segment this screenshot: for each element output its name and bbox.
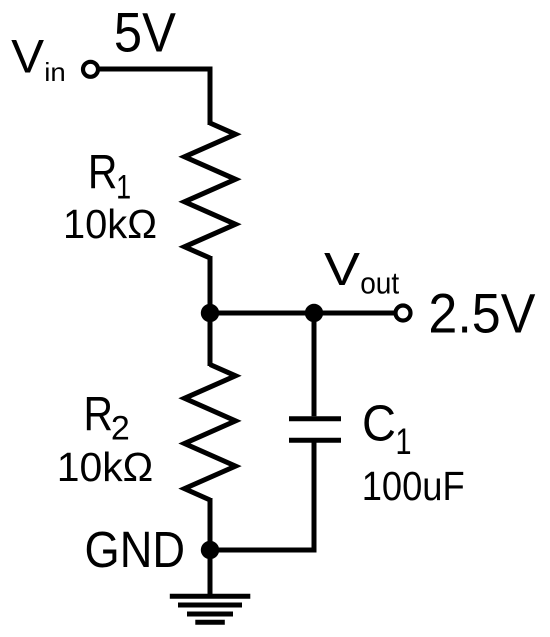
- capacitor C1 top plate: [289, 416, 341, 421]
- terminal Vin (open circle): [83, 62, 98, 77]
- svg-text:C: C: [362, 394, 396, 451]
- svg-text:in: in: [44, 57, 66, 87]
- svg-text:out: out: [360, 265, 399, 300]
- svg-text:2.5V: 2.5V: [428, 282, 536, 345]
- node A junction dot: [201, 304, 219, 322]
- svg-text:V: V: [11, 30, 45, 83]
- wire R2 bottom to GND node: [208, 498, 213, 550]
- capacitor C1 bottom plate: [289, 438, 341, 443]
- ground bar 3: [187, 612, 233, 617]
- wire output rail from node A through node B to Vout terminal: [210, 311, 398, 316]
- ground bar 2: [178, 603, 242, 608]
- ground stem: [208, 550, 213, 596]
- svg-text:V: V: [324, 243, 360, 295]
- terminal Vout (open circle): [396, 306, 411, 321]
- svg-text:2: 2: [111, 410, 130, 448]
- node B junction dot: [305, 304, 323, 322]
- resistor R1 zigzag body: [185, 123, 236, 258]
- wire C1 bottom plate down then left to GND node (L-shape): [210, 443, 314, 551]
- resistor R2 zigzag body: [185, 365, 236, 501]
- svg-text:R: R: [84, 388, 114, 441]
- svg-text:10kΩ: 10kΩ: [57, 444, 154, 490]
- svg-text:1: 1: [396, 421, 412, 462]
- svg-text:100uF: 100uF: [362, 463, 465, 509]
- svg-text:R: R: [88, 147, 118, 200]
- svg-text:GND: GND: [85, 521, 186, 578]
- wire from Vin terminal right then down to R1 top (L-shape): [96, 69, 210, 125]
- wire node A down to R2 top: [208, 313, 213, 366]
- svg-text:10kΩ: 10kΩ: [63, 201, 157, 247]
- wire R1 bottom to node A: [208, 256, 213, 313]
- wire node B down to C1 top plate: [312, 313, 317, 416]
- svg-text:5V: 5V: [114, 1, 177, 64]
- ground bar 1: [170, 594, 251, 599]
- GND node junction dot: [201, 541, 219, 559]
- ground bar 4: [195, 620, 225, 625]
